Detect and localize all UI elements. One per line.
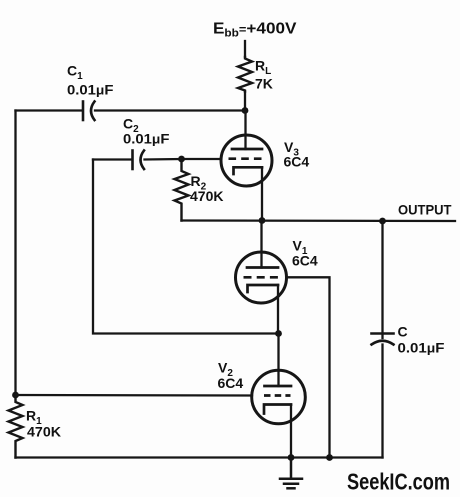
watermark SeekIC.com — [347, 469, 450, 495]
svg-text:Ebb=+400V: Ebb=+400V — [213, 21, 297, 40]
wire feedback rail — [93, 160, 279, 334]
ground — [280, 458, 302, 489]
capacitor C — [372, 334, 394, 345]
wire V2 plate lead — [277, 334, 279, 387]
svg-text:OUTPUT: OUTPUT — [398, 202, 452, 218]
node junction plate V1 / cathode V3 — [259, 217, 266, 224]
node junction cathode V1 / plate V2 — [275, 330, 282, 337]
svg-text:0.01μF: 0.01μF — [67, 82, 114, 98]
svg-text:SeekIC.com: SeekIC.com — [347, 469, 450, 495]
wire V1 plate lead — [260, 221, 262, 268]
svg-text:470K: 470K — [27, 424, 61, 440]
resistor R2 — [175, 159, 189, 221]
wire output cap branch upper — [381, 221, 383, 338]
wire left rail — [14, 111, 16, 396]
wire V2 grid line — [16, 394, 253, 397]
node junction R1 top — [12, 392, 19, 399]
svg-text:6C4: 6C4 — [284, 154, 310, 170]
capacitor C1 — [83, 102, 95, 121]
capacitor C2 — [133, 151, 145, 170]
node junction V1-grid bottom — [326, 454, 333, 461]
wire bottom rail — [16, 456, 383, 458]
svg-text:6C4: 6C4 — [292, 253, 318, 269]
svg-text:7K: 7K — [255, 76, 273, 92]
node junction R2 / C2 / grid V3 — [178, 156, 185, 163]
label OUTPUT — [398, 202, 452, 218]
wire V3 cathode lead — [261, 167, 263, 220]
node junction below RL — [242, 107, 249, 114]
wire V2 cathode lead — [290, 405, 292, 458]
svg-text:C: C — [398, 324, 408, 340]
wire V1 cathode lead — [277, 285, 279, 334]
tube V3 — [221, 135, 309, 186]
wire V3 plate lead — [244, 111, 246, 150]
node junction output — [379, 218, 386, 225]
svg-text:0.01μF: 0.01μF — [398, 340, 445, 356]
wire V1 grid branch — [287, 277, 330, 457]
svg-text:0.01μF: 0.01μF — [123, 131, 170, 147]
tube V1 — [236, 238, 318, 304]
wire top horizontal (right of C1) — [95, 109, 245, 111]
wire C2 right segment — [145, 158, 182, 161]
wire output cap branch lower — [381, 345, 383, 458]
tube V2 — [218, 360, 306, 424]
resistor RL — [238, 57, 252, 92]
svg-text:6C4: 6C4 — [218, 375, 244, 391]
svg-text:RL: RL — [255, 58, 271, 78]
wire C2 left segment — [93, 158, 132, 160]
resistor R1 — [9, 395, 23, 458]
label Ebb = +400V — [213, 21, 297, 40]
wire output line — [182, 219, 456, 222]
wire RL bottom lead — [244, 92, 246, 111]
svg-text:470K: 470K — [190, 188, 223, 204]
wire top horizontal (left of C1) — [16, 109, 83, 111]
wire Ebb supply lead — [244, 41, 246, 57]
wire V3 grid lead — [182, 158, 222, 160]
svg-text:C1: C1 — [67, 63, 83, 83]
node junction ground — [288, 454, 295, 461]
